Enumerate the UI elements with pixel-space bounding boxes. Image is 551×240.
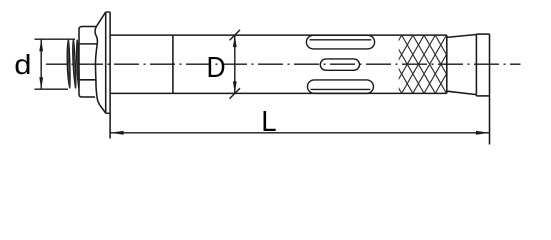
dimension D arrow up [233, 35, 237, 47]
flange rim bottom cap [106, 112, 110, 114]
dimension L line [110, 132, 489, 134]
slot bottom inner line [311, 88, 371, 90]
dimension L arrow right [476, 131, 490, 135]
svg-text:L: L [261, 105, 276, 138]
expansion cone top edge [447, 35, 477, 38]
thread profile crest 3 [77, 40, 79, 88]
slot top outline [306, 35, 374, 49]
flange head profile curve [95, 12, 106, 113]
sleeve body bottom edge [110, 92, 447, 94]
dimension d arrow up [39, 39, 43, 51]
dimension d arrow down [39, 77, 43, 89]
dimension D tick bottom [230, 88, 240, 98]
slot top inner line [310, 39, 372, 41]
end cap left edge [475, 34, 477, 96]
hex collar left edge [79, 27, 82, 98]
end cap bottom edge [476, 95, 489, 97]
dimension D line [234, 35, 236, 93]
center line [46, 63, 521, 65]
hex collar bottom facet edge [82, 96, 95, 98]
dimension d extension line top [35, 38, 76, 40]
flange rim outer line and L extension left [109, 12, 111, 139]
svg-text:D: D [207, 51, 226, 83]
knurl hatched area [368, 35, 480, 93]
dimension D arrow down [233, 81, 237, 93]
dimension L arrow left [110, 131, 124, 135]
sleeve body top edge [110, 34, 447, 36]
thread profile crest 1 [67, 40, 70, 89]
svg-text:d: d [14, 50, 31, 81]
knurl right boundary [446, 35, 448, 93]
flange rim inner line [105, 12, 107, 113]
thread crest inner lines [68, 40, 79, 89]
thread profile crest 2 [73, 40, 76, 89]
slot middle outline [320, 59, 359, 70]
expansion cone bottom edge [447, 91, 477, 94]
sleeve joint line [172, 35, 174, 93]
hex collar upper flat line [79, 43, 98, 45]
hex collar top facet edge [82, 26, 97, 28]
hex collar lower flat line [79, 79, 96, 81]
dimension D tick top [230, 30, 240, 40]
flange rim top cap [106, 11, 110, 13]
dimension d line [40, 39, 42, 89]
end cap right edge and L extension right [489, 34, 491, 145]
end cap top edge [476, 33, 489, 35]
slot bottom outline [307, 80, 373, 94]
dimension d extension line bottom [35, 88, 69, 90]
